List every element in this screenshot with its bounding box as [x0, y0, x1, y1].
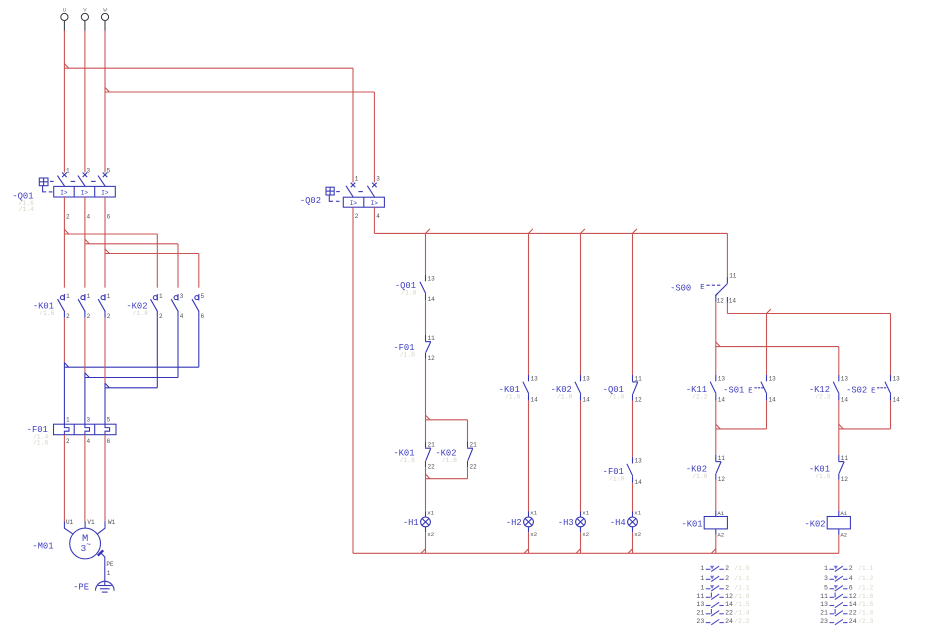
svg-text:13: 13	[820, 601, 828, 608]
wire F01 pin4 to motor V1	[84, 435, 86, 522]
wire K01 pole3 down	[104, 318, 106, 383]
svg-text:/1.6: /1.6	[400, 457, 416, 464]
svg-text:22: 22	[849, 609, 857, 616]
svg-text:1: 1	[824, 565, 828, 572]
svg-text:A1: A1	[717, 510, 724, 517]
svg-text:4: 4	[849, 575, 853, 582]
svg-text:1: 1	[700, 584, 704, 591]
junction bottom rail H1	[421, 549, 425, 554]
svg-text:14: 14	[718, 397, 726, 404]
svg-text:2: 2	[87, 313, 91, 320]
svg-text:4: 4	[376, 213, 380, 220]
svg-text:x2: x2	[582, 531, 589, 538]
svg-text:21: 21	[696, 609, 704, 616]
svg-text:13: 13	[635, 458, 643, 465]
wire branch L1 to K02	[64, 233, 157, 235]
svg-text:-H3: -H3	[558, 518, 574, 528]
svg-text:14: 14	[725, 601, 733, 608]
junction merge L1	[64, 363, 68, 368]
svg-text:22: 22	[725, 609, 733, 616]
aux contact K01 11/12 (NC interlock)	[838, 455, 840, 461]
wire Q01 pin4 to K01	[84, 197, 86, 288]
wire lamp H4 to bottom rail	[632, 532, 634, 553]
junction merge L3	[105, 383, 109, 388]
svg-text:/2.3: /2.3	[815, 393, 831, 400]
contactor coil K01	[715, 511, 717, 517]
wire to K02 coil	[838, 480, 840, 511]
indicator lamp H1	[425, 512, 427, 517]
junction split parallel NC pair	[426, 415, 430, 420]
svg-text:-PE: -PE	[73, 582, 89, 592]
wire branch L3 to K02	[105, 253, 199, 255]
svg-text:2: 2	[66, 214, 70, 221]
aux contact K01 13/14	[528, 375, 530, 381]
junction rail to S01	[767, 309, 771, 314]
svg-text:I>: I>	[81, 190, 89, 197]
svg-text:V: V	[83, 7, 87, 14]
svg-text:/1.0: /1.0	[401, 289, 417, 296]
svg-text:6: 6	[849, 584, 853, 591]
junction S00/12 rail to K12	[716, 342, 720, 347]
svg-text:W: W	[103, 7, 107, 14]
stop button S00 (NC+NO)	[726, 277, 728, 283]
svg-text:/1.0: /1.0	[609, 476, 625, 483]
wire K02 pole2 to L2	[177, 318, 179, 378]
svg-text:13: 13	[696, 601, 704, 608]
svg-text:12: 12	[841, 476, 849, 483]
Q01 operator symbol	[39, 178, 48, 186]
junction branch to K02 pole2	[85, 239, 89, 244]
wire rail to K01 aux	[528, 233, 530, 375]
wire to K02 NC interlock	[715, 429, 717, 455]
wire K01 aux to lamp H2	[528, 400, 530, 511]
aux contact K02 21/22 (NC)	[467, 441, 469, 447]
wire to K01 coil	[715, 480, 717, 511]
svg-text:2: 2	[66, 313, 70, 320]
svg-text:/1.1: /1.1	[734, 584, 750, 591]
rail S00/14 to start buttons	[727, 313, 890, 315]
svg-text:x1: x1	[634, 510, 641, 517]
wire Q01 pin2 to K01	[63, 197, 65, 288]
svg-text:11: 11	[635, 375, 643, 382]
wire S01 to join rail	[766, 400, 768, 429]
svg-text:5: 5	[107, 168, 111, 175]
wire K12 down	[838, 400, 840, 429]
svg-text:-S02: -S02	[846, 385, 867, 395]
svg-text:2: 2	[849, 565, 853, 572]
svg-text:6: 6	[201, 313, 205, 320]
svg-text:14: 14	[635, 479, 643, 486]
junction bottom rail K01 coil	[711, 549, 715, 554]
wire L1 vertical to Q01 pin1	[63, 31, 65, 173]
wire K01 pole2 down	[84, 318, 86, 373]
svg-text:A2: A2	[717, 531, 724, 538]
svg-text:-S01: -S01	[723, 385, 744, 395]
wire K01 pole1 down	[63, 318, 65, 362]
svg-text:x2: x2	[427, 531, 434, 538]
svg-text:3: 3	[376, 176, 380, 183]
svg-text:1: 1	[355, 176, 359, 183]
svg-text:11: 11	[718, 455, 726, 462]
svg-text:13: 13	[769, 375, 777, 382]
svg-text:21: 21	[470, 442, 478, 449]
svg-text:23: 23	[696, 618, 704, 625]
contactor coil K02	[838, 511, 840, 517]
wire to S01	[766, 314, 768, 376]
svg-text:12: 12	[718, 476, 726, 483]
svg-text:5: 5	[824, 584, 828, 591]
indicator lamp H3	[580, 512, 582, 517]
svg-text:11: 11	[729, 273, 737, 280]
wire F01 aux to lamp H4	[632, 483, 634, 512]
svg-text:I>: I>	[371, 200, 379, 207]
control bottom rail	[353, 552, 839, 554]
svg-text:6: 6	[107, 214, 111, 221]
PE connection marker	[98, 550, 103, 555]
svg-text:/2.2: /2.2	[734, 618, 750, 625]
indicator lamp H4	[632, 512, 634, 517]
svg-text:23: 23	[820, 618, 828, 625]
svg-text:11: 11	[428, 335, 436, 342]
wire lamp H2 to bottom rail	[528, 532, 530, 553]
aux contact F01 11/12 (NC)	[425, 335, 427, 341]
aux contact Q01 13/14	[425, 275, 427, 281]
junction bottom rail H2	[524, 549, 528, 554]
wire rejoin	[467, 467, 469, 479]
svg-text:22: 22	[428, 463, 436, 470]
aux contact K01 21/22 (NC)	[425, 441, 427, 447]
wire S02 to join rail	[890, 400, 892, 429]
svg-text:-H2: -H2	[506, 518, 522, 528]
svg-text:1: 1	[700, 575, 704, 582]
circuit breaker Q01	[62, 173, 67, 178]
svg-text:1: 1	[700, 565, 704, 572]
svg-text:3: 3	[180, 293, 184, 300]
svg-text:E: E	[700, 284, 704, 292]
svg-text:22: 22	[470, 463, 478, 470]
svg-text:2: 2	[725, 575, 729, 582]
wire F01 pin2 to motor U1	[63, 435, 65, 522]
wire to K12	[838, 347, 840, 375]
svg-text:1: 1	[159, 293, 163, 300]
control top rail	[374, 232, 727, 234]
svg-text:/1.4: /1.4	[858, 609, 874, 616]
svg-text:14: 14	[531, 397, 539, 404]
circuit breaker Q02	[351, 183, 356, 188]
junction L3 branch	[105, 87, 109, 92]
svg-text:3: 3	[87, 417, 91, 424]
wire lamp H1 to bottom rail	[425, 532, 427, 553]
svg-text:/1.0: /1.0	[734, 565, 750, 572]
wire motor to PE	[101, 553, 105, 585]
svg-text:/1.6: /1.6	[39, 310, 55, 317]
svg-text:21: 21	[428, 442, 436, 449]
junction branch to K02 pole3	[105, 249, 109, 254]
svg-text:x1: x1	[427, 510, 434, 517]
start button S02 13/14	[890, 375, 892, 381]
junction bottom rail H4	[628, 549, 632, 554]
start button S01 13/14	[766, 375, 768, 381]
svg-text:V1: V1	[87, 519, 95, 526]
svg-text:E: E	[871, 387, 875, 395]
wire rail to K02 aux	[580, 233, 582, 375]
svg-text:6: 6	[107, 438, 111, 445]
svg-text:2: 2	[355, 213, 359, 220]
svg-text:/1.6: /1.6	[33, 440, 49, 447]
svg-text:12: 12	[725, 593, 733, 600]
svg-text:-K01: -K01	[681, 520, 702, 530]
svg-text:24: 24	[849, 618, 857, 625]
svg-text:A2: A2	[840, 531, 847, 538]
svg-text:W1: W1	[108, 519, 116, 526]
junction top rail col1	[426, 229, 430, 234]
junction top rail col4	[633, 229, 637, 234]
wire K02 pole3 to L1 (phase swap)	[198, 318, 200, 367]
svg-text:13: 13	[893, 375, 901, 382]
svg-text:13: 13	[718, 375, 726, 382]
wire coil K01 to bottom rail	[715, 535, 717, 554]
svg-text:24: 24	[725, 618, 733, 625]
svg-text:1: 1	[87, 293, 91, 300]
svg-text:I>: I>	[60, 190, 68, 197]
junction L1 branch	[64, 64, 68, 69]
thermal overload relay F01	[54, 424, 117, 435]
svg-text:-H4: -H4	[610, 518, 626, 528]
wire L2 vertical to Q01 pin3	[84, 31, 86, 173]
svg-text:13: 13	[531, 375, 539, 382]
svg-text:4: 4	[87, 438, 91, 445]
svg-text:-S00: -S00	[670, 283, 691, 293]
wire K11 down	[715, 400, 717, 429]
svg-text:/1.8: /1.8	[442, 457, 458, 464]
svg-text:/1.2: /1.2	[858, 584, 874, 591]
svg-text:11: 11	[841, 455, 849, 462]
svg-text:/1.6: /1.6	[815, 473, 831, 480]
svg-text:12: 12	[635, 397, 643, 404]
svg-text:12: 12	[428, 355, 436, 362]
svg-text:x2: x2	[530, 531, 537, 538]
svg-text:1: 1	[66, 293, 70, 300]
svg-text:1: 1	[107, 570, 111, 577]
svg-text:/1.4: /1.4	[734, 609, 750, 616]
wire S00 pin12 down	[715, 302, 717, 375]
svg-text:14: 14	[583, 397, 591, 404]
junction K12/S02 join	[839, 424, 843, 429]
svg-text:1: 1	[66, 168, 70, 175]
svg-text:1: 1	[107, 293, 111, 300]
ground symbol PE	[96, 581, 115, 590]
svg-text:3: 3	[87, 168, 91, 175]
wire L3 horizontal rail to Q02 pin3	[105, 91, 374, 93]
aux contact K02 11/12 (NC interlock)	[715, 455, 717, 461]
svg-text:4: 4	[87, 214, 91, 221]
svg-text:2: 2	[725, 565, 729, 572]
wire K02 pole1 to L3 (phase swap)	[156, 318, 158, 388]
svg-text:/1.4: /1.4	[19, 206, 35, 213]
svg-text:13: 13	[583, 375, 591, 382]
svg-text:14: 14	[849, 601, 857, 608]
svg-text:-Q02: -Q02	[300, 196, 321, 206]
aux contact K12 13/14	[838, 375, 840, 381]
svg-text:/2.2: /2.2	[692, 393, 708, 400]
aux contact K02 13/14	[580, 375, 582, 381]
indicator lamp H2	[528, 512, 530, 517]
svg-text:2: 2	[725, 584, 729, 591]
svg-text:/1.0: /1.0	[400, 351, 416, 358]
junction rejoin parallel NC pair	[426, 474, 430, 479]
junction K11/S01 join	[716, 424, 720, 429]
svg-text:/1.2: /1.2	[858, 575, 874, 582]
junction bottom rail H3	[576, 549, 580, 554]
wire rail to Q01 NC aux	[632, 233, 634, 375]
svg-text:x1: x1	[582, 510, 589, 517]
svg-text:2: 2	[107, 313, 111, 320]
motor M01	[70, 528, 101, 559]
svg-text:14: 14	[428, 296, 436, 303]
svg-text:x1: x1	[530, 510, 537, 517]
svg-text:5: 5	[201, 293, 205, 300]
wire Q01 NC to F01 aux	[632, 400, 634, 457]
svg-text:I>: I>	[350, 200, 358, 207]
svg-text:14: 14	[729, 298, 737, 305]
svg-text:13: 13	[428, 275, 436, 282]
svg-text:/1.0: /1.0	[609, 393, 625, 400]
wire Q02 pin2 down to bottom rail	[352, 207, 354, 553]
svg-text:U: U	[63, 7, 66, 14]
contactor K02 main contacts	[156, 294, 158, 301]
wire L1 horizontal rail to Q02 pin1	[64, 67, 353, 69]
junction branch to K02 pole1	[64, 229, 68, 234]
wire L3 vertical to Q01 pin5	[104, 31, 106, 173]
aux contact Q01 11/12 (NC)	[632, 375, 634, 381]
wire to S02	[890, 314, 892, 376]
svg-text:/1.8: /1.8	[692, 473, 708, 480]
wire to lamp H1	[425, 479, 427, 512]
svg-text:E: E	[748, 387, 752, 395]
contactor K01 main contacts	[63, 294, 65, 301]
svg-text:14: 14	[893, 397, 901, 404]
wire K02 aux to lamp H3	[580, 400, 582, 511]
wire main to K01 NC	[425, 420, 427, 442]
svg-text:x2: x2	[634, 531, 641, 538]
svg-text:/1.8: /1.8	[734, 593, 750, 600]
svg-text:I>: I>	[101, 190, 109, 197]
aux contact K11 13/14	[715, 375, 717, 381]
svg-text:12: 12	[849, 593, 857, 600]
svg-text:/1.5: /1.5	[858, 601, 874, 608]
svg-text:3: 3	[824, 575, 828, 582]
svg-text:/1.1: /1.1	[858, 565, 874, 572]
wire Q01 aux to F01 aux	[425, 300, 427, 335]
wire branch to K02 NC	[426, 419, 468, 421]
svg-text:21: 21	[820, 609, 828, 616]
svg-text:U1: U1	[66, 519, 74, 526]
svg-text:-M01: -M01	[32, 541, 53, 551]
svg-text:4: 4	[180, 313, 184, 320]
wire Q01 pin6 to K01	[104, 197, 106, 288]
wire to K01 NC interlock	[838, 429, 840, 455]
wire coil K02 to bottom rail	[838, 535, 840, 554]
svg-text:-H1: -H1	[403, 518, 419, 528]
svg-text:/1.6: /1.6	[505, 393, 521, 400]
wire branch L2 to K02	[85, 243, 178, 245]
junction top rail col2	[529, 229, 533, 234]
svg-text:2: 2	[159, 313, 163, 320]
junction merge L2	[85, 373, 89, 378]
svg-text:/1.6: /1.6	[858, 593, 874, 600]
svg-text:~: ~	[86, 541, 91, 550]
svg-text:12: 12	[717, 298, 725, 305]
svg-text:14: 14	[841, 397, 849, 404]
wire F01 pin6 to motor W1	[104, 435, 106, 522]
svg-text:-K02: -K02	[804, 520, 825, 530]
svg-text:A1: A1	[840, 510, 847, 517]
svg-text:13: 13	[841, 375, 849, 382]
svg-text:11: 11	[820, 593, 828, 600]
aux contact F01 13/14	[632, 457, 634, 463]
svg-text:/2.3: /2.3	[858, 618, 874, 625]
svg-text:14: 14	[769, 397, 777, 404]
wire lamp H3 to bottom rail	[580, 532, 582, 553]
junction top rail col3	[581, 229, 585, 234]
svg-text:11: 11	[696, 593, 704, 600]
wire S00 pin14 down	[726, 303, 728, 314]
svg-text:/1.5: /1.5	[734, 601, 750, 608]
svg-text:1: 1	[66, 417, 70, 424]
wire rail to Q01 aux	[425, 233, 427, 275]
svg-text:PE: PE	[106, 561, 114, 568]
svg-text:/1.1: /1.1	[734, 575, 750, 582]
svg-text:5: 5	[107, 417, 111, 424]
wire Q02 pin4 to control top rail	[373, 207, 375, 233]
svg-text:/1.8: /1.8	[557, 393, 573, 400]
svg-text:2: 2	[66, 438, 70, 445]
wire F01 aux down	[425, 359, 427, 420]
rail S00/12 to K12	[716, 346, 839, 348]
svg-text:/1.8: /1.8	[133, 310, 149, 317]
Q02 operator symbol	[326, 187, 334, 195]
